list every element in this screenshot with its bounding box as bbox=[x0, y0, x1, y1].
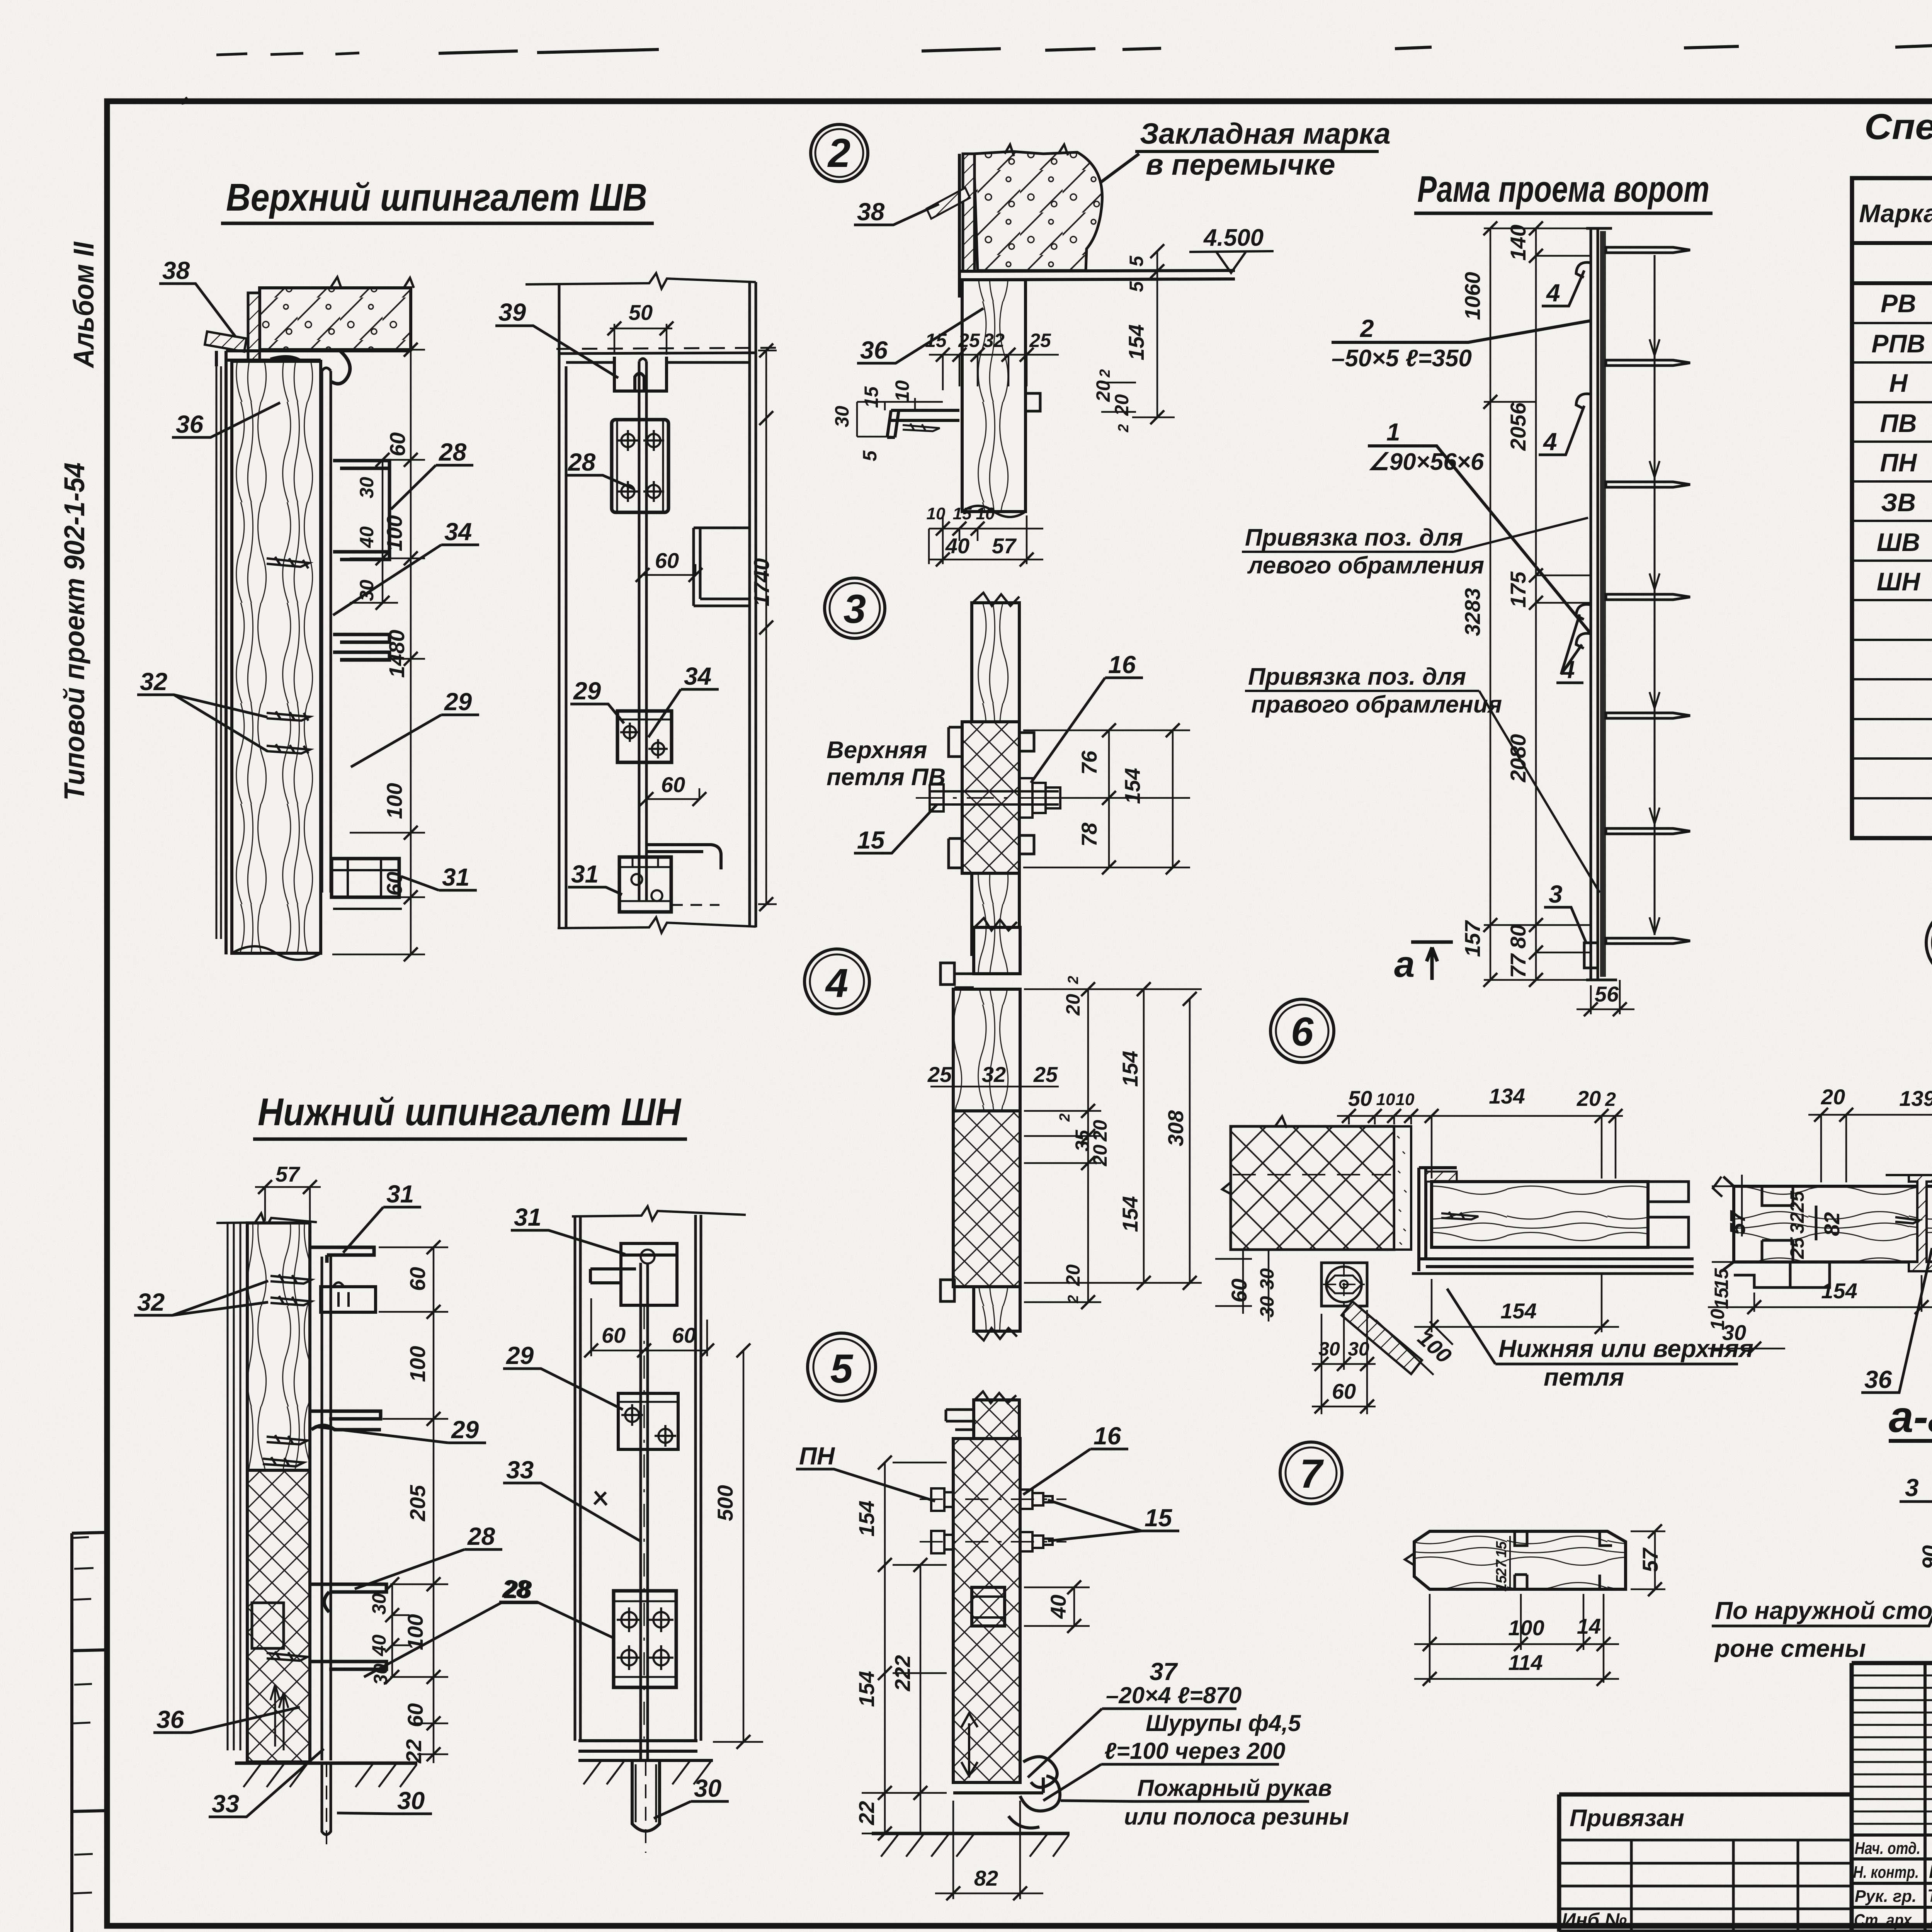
svg-text:30: 30 bbox=[1318, 1338, 1340, 1360]
dim 60 upper bbox=[636, 548, 702, 582]
spec title bbox=[1864, 106, 1932, 180]
detail 3 hinge pin bolt bbox=[916, 778, 1078, 818]
rod C bbox=[322, 1257, 331, 1760]
concrete lintel bbox=[260, 277, 414, 350]
svg-text:5: 5 bbox=[1126, 255, 1147, 267]
svg-text:82: 82 bbox=[974, 1866, 998, 1890]
svg-text:38: 38 bbox=[857, 198, 885, 226]
svg-text:15: 15 bbox=[857, 826, 885, 854]
svg-text:4: 4 bbox=[825, 961, 848, 1006]
label 29 drawing B bbox=[570, 677, 624, 723]
label 31 drawing B bbox=[568, 860, 622, 895]
spec row ShN bbox=[1877, 567, 1932, 597]
label 28 drawing A bbox=[391, 438, 473, 509]
label 33 D bbox=[503, 1456, 641, 1542]
svg-text:57: 57 bbox=[1725, 1210, 1750, 1235]
plate 28 D bbox=[614, 1591, 676, 1687]
embedded steel strip bbox=[248, 293, 260, 440]
hinge assembly detail 6 bbox=[1321, 1263, 1422, 1374]
detail 2 corner angle strip bbox=[963, 154, 975, 271]
svg-text:ШВ: ШВ bbox=[1877, 528, 1920, 556]
svg-text:100: 100 bbox=[382, 783, 406, 819]
detail 2 top dims 15 25 32 25 bbox=[925, 330, 1059, 390]
label 34 drawing A bbox=[333, 518, 479, 615]
svg-text:Нижний шпингалет ШН: Нижний шпингалет ШН bbox=[258, 1090, 682, 1134]
svg-text:Н: Н bbox=[1889, 369, 1908, 397]
detail 4 bottom plank bbox=[940, 1280, 1020, 1340]
detail 3 dims right bbox=[1023, 723, 1190, 874]
mid bracket 29C bbox=[311, 1411, 381, 1430]
top break line bbox=[526, 273, 756, 289]
detail circle 2 bbox=[811, 124, 868, 182]
dim 60 lower bbox=[639, 772, 706, 806]
title Rama proema vorot bbox=[1414, 168, 1713, 213]
svg-text:31: 31 bbox=[514, 1203, 541, 1231]
note privyazka pravogo bbox=[1245, 663, 1600, 893]
steel angle frame detail 6 bbox=[1419, 1168, 1694, 1271]
svg-text:2: 2 bbox=[1065, 1295, 1082, 1303]
section title a-a bbox=[1889, 1392, 1932, 1442]
svg-text:Тригубенко: Тригубенко bbox=[1927, 1886, 1932, 1906]
svg-text:ШН: ШН bbox=[1877, 567, 1921, 596]
low flange b bbox=[311, 1662, 386, 1669]
svg-text:Верхний шпингалет ШВ: Верхний шпингалет ШВ bbox=[226, 176, 647, 219]
fire hose coil bbox=[1009, 1757, 1060, 1828]
svg-text:50: 50 bbox=[1348, 1086, 1372, 1111]
keeper top D bbox=[590, 1243, 677, 1305]
dim 82 bbox=[935, 1801, 1043, 1900]
drawing B: ShV bolt front view bbox=[495, 273, 777, 933]
elevation left dim chain bbox=[1460, 221, 1591, 987]
handle bbox=[646, 845, 721, 869]
svg-text:2056: 2056 bbox=[1506, 402, 1530, 451]
svg-text:32: 32 bbox=[983, 330, 1005, 351]
svg-text:60: 60 bbox=[1332, 1379, 1356, 1403]
label 36 C bbox=[153, 1706, 300, 1733]
dim 50 bbox=[607, 300, 673, 355]
svg-text:57: 57 bbox=[992, 534, 1017, 558]
svg-text:154: 154 bbox=[1118, 1196, 1142, 1232]
svg-text:25: 25 bbox=[927, 1062, 952, 1087]
paper top edge line bbox=[216, 43, 1932, 55]
svg-text:Альбом II: Альбом II bbox=[68, 241, 100, 369]
note privyazka levogo bbox=[1242, 518, 1588, 579]
detail 8 small left dims 15 15 10 bbox=[1707, 1268, 1732, 1330]
guide bracket lower 29 bbox=[333, 634, 389, 660]
svg-text:20: 20 bbox=[1062, 1264, 1084, 1286]
label 30 C bbox=[337, 1787, 432, 1815]
svg-text:30: 30 bbox=[1256, 1296, 1278, 1318]
bent plate curls bbox=[270, 351, 350, 384]
anchors 7 pcs bbox=[1606, 247, 1690, 944]
detail 2 wood post bbox=[962, 280, 1040, 517]
detail 2 concrete blob bbox=[974, 145, 1102, 270]
svg-text:Рук. гр.: Рук. гр. bbox=[1855, 1887, 1917, 1906]
detail 4 upper plank bbox=[940, 918, 1020, 988]
jamb step bbox=[694, 528, 750, 606]
ground line C bbox=[235, 1763, 417, 1787]
svg-text:2: 2 bbox=[1605, 1088, 1616, 1110]
svg-text:60: 60 bbox=[403, 1703, 427, 1727]
socket 30 below ground bbox=[632, 1762, 660, 1853]
svg-text:56: 56 bbox=[1595, 982, 1619, 1006]
svg-text:ПН: ПН bbox=[1880, 448, 1917, 477]
svg-text:154: 154 bbox=[854, 1671, 879, 1707]
detail 5 top plank bbox=[946, 1391, 1019, 1439]
detail 2 left small dims bbox=[831, 380, 943, 461]
svg-text:15: 15 bbox=[1711, 1268, 1732, 1290]
svg-text:ПН: ПН bbox=[799, 1442, 835, 1470]
svg-text:40: 40 bbox=[945, 534, 969, 558]
svg-text:50: 50 bbox=[629, 300, 653, 325]
svg-text:40: 40 bbox=[356, 526, 378, 548]
label 28 drawing B bbox=[565, 448, 634, 489]
label 36 detail 2 bbox=[857, 308, 983, 364]
svg-text:32: 32 bbox=[140, 668, 167, 696]
svg-text:222: 222 bbox=[890, 1655, 915, 1691]
title Nizhniy shpingalet ShN bbox=[253, 1090, 687, 1139]
ground line detail 5 bbox=[872, 1833, 1070, 1857]
detail 5 left dims bbox=[854, 1456, 947, 1840]
detail 6 diag dim 100 bbox=[1376, 1320, 1456, 1375]
svg-text:Пожарный рукав: Пожарный рукав bbox=[1137, 1775, 1332, 1801]
label 39 bbox=[495, 298, 618, 378]
spec row RPV bbox=[1871, 329, 1932, 359]
spec table grid bbox=[1852, 178, 1932, 838]
svg-text:1060: 1060 bbox=[1460, 272, 1485, 320]
svg-text:2: 2 bbox=[1116, 424, 1132, 432]
bolt rod front bbox=[639, 359, 646, 900]
label 33 C bbox=[209, 1749, 324, 1818]
svg-text:15: 15 bbox=[861, 386, 882, 408]
spec row N bbox=[1889, 369, 1932, 398]
svg-text:31: 31 bbox=[571, 860, 599, 888]
svg-text:27: 27 bbox=[1493, 1559, 1510, 1577]
bottom keeper 31 bbox=[332, 859, 402, 909]
label 29 C bbox=[315, 1416, 486, 1444]
detail 5 bolt PN lower bbox=[920, 1531, 1066, 1553]
label 28b C bbox=[364, 1576, 539, 1677]
bottom break line B bbox=[558, 917, 756, 933]
svg-text:90: 90 bbox=[1918, 1545, 1932, 1569]
signature rows bbox=[1853, 1837, 1932, 1930]
bottom rail D bbox=[578, 1741, 697, 1751]
svg-text:32: 32 bbox=[982, 1062, 1006, 1087]
bolt rod section bbox=[322, 368, 331, 893]
svg-text:2: 2 bbox=[1065, 976, 1082, 984]
detail circle 5 bbox=[808, 1333, 876, 1401]
svg-text:ЗВ: ЗВ bbox=[1881, 488, 1916, 517]
svg-text:30: 30 bbox=[1256, 1268, 1278, 1290]
note po naruzhnoy storone steny bbox=[1712, 1587, 1932, 1662]
svg-text:Спецификация к схеме располо: Спецификация к схеме расположения bbox=[1864, 106, 1932, 147]
svg-text:30: 30 bbox=[694, 1774, 721, 1802]
screws ShN top bbox=[270, 1274, 311, 1305]
svg-text:Агапьева: Агапьева bbox=[1929, 1910, 1932, 1930]
svg-text:500: 500 bbox=[713, 1485, 737, 1521]
svg-text:60: 60 bbox=[385, 432, 410, 456]
svg-text:25: 25 bbox=[1786, 1237, 1808, 1259]
svg-text:ПВ: ПВ bbox=[1880, 409, 1917, 437]
svg-text:60: 60 bbox=[602, 1323, 626, 1347]
detail circle 3 bbox=[825, 578, 885, 638]
dim 60 60 D bbox=[584, 1298, 714, 1357]
detail 2 anchor 38 bbox=[854, 188, 970, 226]
label 30 D bbox=[654, 1774, 729, 1818]
detail 8 top dims 20 139 10 139 20 bbox=[1808, 1083, 1932, 1182]
frame verticals D bbox=[575, 1215, 701, 1741]
svg-text:Привязан: Привязан bbox=[1570, 1805, 1684, 1832]
brick wall bbox=[1222, 1116, 1394, 1250]
svg-text:30: 30 bbox=[831, 406, 853, 427]
title block grid bbox=[1559, 1663, 1932, 1932]
keeper 39 bbox=[614, 357, 667, 391]
svg-text:33: 33 bbox=[506, 1456, 534, 1484]
label 28 D bbox=[499, 1575, 614, 1638]
svg-text:1480: 1480 bbox=[384, 630, 409, 678]
low flange a bbox=[311, 1584, 386, 1612]
lintel lines bbox=[559, 353, 756, 362]
svg-text:20: 20 bbox=[1089, 1145, 1111, 1167]
stray mark top left bbox=[182, 97, 193, 104]
svg-text:38: 38 bbox=[162, 257, 190, 284]
svg-text:Привязка поз. для: Привязка поз. для bbox=[1245, 524, 1463, 551]
svg-text:57: 57 bbox=[276, 1162, 301, 1186]
label Verkhnyaya petlya PV bbox=[827, 737, 946, 791]
svg-text:в перемычке: в перемычке bbox=[1146, 148, 1335, 181]
detail 5 main plank bbox=[953, 1439, 1020, 1782]
detail 7 plank section a-a bbox=[1405, 1531, 1626, 1589]
dim chain right C bbox=[368, 1240, 448, 1764]
wall frame verticals bbox=[559, 282, 756, 927]
spec header bbox=[1859, 192, 1932, 240]
wood frame post with grain bbox=[232, 361, 321, 960]
svg-text:–20×4 ℓ=870: –20×4 ℓ=870 bbox=[1106, 1682, 1242, 1708]
svg-text:30: 30 bbox=[356, 477, 378, 498]
screws ShN mid bbox=[263, 1435, 308, 1466]
detail 2 angle under lintel bbox=[959, 154, 1235, 298]
detail 4 right dims bbox=[1024, 976, 1202, 1309]
detail 6 dim 154 bbox=[1414, 1274, 1619, 1334]
svg-text:60: 60 bbox=[661, 772, 685, 797]
svg-text:154: 154 bbox=[1124, 324, 1148, 360]
label 15 detail 3 bbox=[854, 804, 937, 854]
svg-text:4.500: 4.500 bbox=[1203, 224, 1264, 251]
svg-text:77: 77 bbox=[1506, 953, 1530, 978]
svg-text:134: 134 bbox=[1489, 1084, 1525, 1108]
svg-text:29: 29 bbox=[573, 677, 601, 705]
svg-text:32: 32 bbox=[1786, 1212, 1808, 1234]
detail 6 left dims bbox=[1215, 1250, 1278, 1321]
svg-text:76: 76 bbox=[1077, 750, 1101, 775]
jamb strip speckled bbox=[1394, 1126, 1411, 1250]
detail 5 bolt PN upper bbox=[920, 1488, 1066, 1511]
svg-text:28: 28 bbox=[467, 1522, 495, 1550]
svg-text:28: 28 bbox=[439, 438, 467, 466]
svg-text:5: 5 bbox=[830, 1346, 854, 1391]
up arrows in wood bbox=[270, 1685, 288, 1750]
top break D bbox=[572, 1206, 746, 1220]
svg-text:Рама проема ворот: Рама проема ворот bbox=[1417, 168, 1709, 210]
label 16 detail 3 bbox=[1031, 651, 1143, 783]
svg-text:а-а: а-а bbox=[1889, 1392, 1932, 1442]
detail circle 4 bbox=[804, 949, 869, 1014]
detail circle 7 bbox=[1280, 1442, 1342, 1504]
detail 8 bottom dims 154 20 154 30 bbox=[1708, 1275, 1932, 1355]
angle under lintel bbox=[216, 351, 411, 954]
svg-text:205: 205 bbox=[405, 1485, 430, 1521]
svg-text:140: 140 bbox=[1506, 224, 1530, 260]
screws ShN low bbox=[267, 1651, 308, 1661]
svg-text:3: 3 bbox=[844, 587, 866, 632]
svg-text:154: 154 bbox=[854, 1500, 879, 1536]
label 29 D bbox=[503, 1342, 623, 1410]
label 32 bbox=[137, 668, 267, 751]
svg-text:37: 37 bbox=[1150, 1658, 1179, 1685]
svg-text:31: 31 bbox=[442, 863, 469, 891]
svg-text:30: 30 bbox=[397, 1787, 425, 1815]
svg-text:100: 100 bbox=[405, 1346, 430, 1382]
svg-text:25: 25 bbox=[958, 330, 980, 351]
svg-text:30: 30 bbox=[1348, 1338, 1369, 1360]
detail 6 bottom dims 30 30 60 bbox=[1312, 1310, 1376, 1414]
dashed line bbox=[556, 348, 777, 349]
dim 56 elevation bbox=[1577, 980, 1634, 1016]
svg-text:15: 15 bbox=[953, 504, 972, 523]
svg-text:петля ПВ: петля ПВ bbox=[827, 764, 946, 791]
svg-text:15: 15 bbox=[1145, 1504, 1173, 1532]
detail 4 wood mid bbox=[953, 989, 1020, 1111]
label 4 c bbox=[1556, 614, 1583, 684]
svg-text:29: 29 bbox=[444, 688, 472, 716]
detail circle 6 bbox=[1270, 999, 1334, 1063]
dim 500 D bbox=[713, 1344, 763, 1749]
svg-text:20: 20 bbox=[1089, 1120, 1111, 1142]
svg-text:10: 10 bbox=[891, 380, 913, 402]
label 1 angle bbox=[1368, 418, 1591, 634]
detail 4 insert bbox=[973, 1124, 999, 1166]
svg-text:2: 2 bbox=[827, 131, 850, 176]
svg-text:154: 154 bbox=[1120, 768, 1145, 804]
svg-text:3283: 3283 bbox=[1460, 588, 1485, 636]
label 28a C bbox=[355, 1522, 502, 1589]
label 31 D bbox=[511, 1203, 625, 1254]
detail circle 8 bbox=[1926, 907, 1932, 978]
svg-text:6: 6 bbox=[1291, 1009, 1314, 1054]
frame member vertical bbox=[1586, 228, 1617, 980]
svg-text:10: 10 bbox=[976, 504, 995, 523]
svg-text:28: 28 bbox=[502, 1575, 530, 1603]
svg-text:4: 4 bbox=[1546, 279, 1560, 307]
svg-text:36: 36 bbox=[1864, 1366, 1892, 1393]
anchor flag 38 bbox=[159, 257, 247, 352]
svg-text:34: 34 bbox=[684, 662, 711, 690]
detail 3 hinge band bbox=[949, 722, 1034, 873]
svg-text:–50×5 ℓ=350: –50×5 ℓ=350 bbox=[1332, 345, 1472, 372]
label 37 group bbox=[1028, 1658, 1301, 1801]
svg-text:30: 30 bbox=[368, 1593, 390, 1615]
svg-text:Верхняя: Верхняя bbox=[827, 737, 927, 764]
title Verkhniy shpingalet ShV bbox=[221, 176, 654, 223]
svg-text:60: 60 bbox=[382, 872, 406, 896]
svg-text:308: 308 bbox=[1163, 1110, 1188, 1146]
spec row ZV bbox=[1881, 488, 1932, 517]
svg-text:2080: 2080 bbox=[1506, 734, 1530, 783]
spec row PV bbox=[1880, 409, 1932, 438]
ground line D bbox=[578, 1760, 713, 1784]
svg-text:5: 5 bbox=[1126, 281, 1147, 292]
svg-text:20: 20 bbox=[1577, 1086, 1601, 1111]
svg-text:32: 32 bbox=[137, 1288, 165, 1316]
detail 5 bottom foot bbox=[953, 1713, 1043, 1793]
svg-text:левого обрамления: левого обрамления bbox=[1247, 552, 1484, 579]
top break bbox=[216, 1213, 317, 1227]
svg-text:80: 80 bbox=[1506, 925, 1530, 949]
svg-text:1: 1 bbox=[1386, 418, 1400, 446]
svg-text:роне стены: роне стены bbox=[1714, 1634, 1866, 1662]
svg-text:154: 154 bbox=[1118, 1051, 1142, 1087]
detail 2 right dims bbox=[1092, 244, 1175, 433]
door leaf wood detail 6 bbox=[1432, 1182, 1689, 1247]
label 3 elevation bbox=[1544, 880, 1586, 943]
dim 1740 bbox=[749, 344, 777, 911]
svg-text:По наружной сто-: По наружной сто- bbox=[1715, 1597, 1932, 1624]
svg-text:29: 29 bbox=[451, 1416, 479, 1444]
svg-text:20: 20 bbox=[1821, 1085, 1845, 1109]
svg-text:Власенко: Власенко bbox=[1929, 1862, 1932, 1882]
svg-text:10: 10 bbox=[927, 504, 946, 523]
detail 7 small dims 15 27 15 bbox=[1493, 1536, 1510, 1592]
svg-text:22: 22 bbox=[854, 1801, 879, 1825]
svg-text:ℓ=100 через 200: ℓ=100 через 200 bbox=[1104, 1738, 1286, 1764]
svg-text:28: 28 bbox=[568, 448, 596, 476]
detail 2 bottom dims bbox=[927, 504, 1043, 566]
svg-text:2: 2 bbox=[1057, 1113, 1073, 1122]
label PN bbox=[796, 1442, 935, 1501]
label 36 bbox=[172, 403, 280, 438]
label 4 b bbox=[1539, 406, 1584, 456]
guide bracket upper 28 bbox=[333, 461, 389, 560]
svg-text:36: 36 bbox=[860, 336, 888, 364]
label 4 a bbox=[1542, 270, 1584, 307]
svg-text:82: 82 bbox=[1820, 1212, 1844, 1236]
svg-text:100: 100 bbox=[1508, 1616, 1544, 1640]
svg-text:∠90×56×6: ∠90×56×6 bbox=[1368, 449, 1484, 475]
svg-text:33: 33 bbox=[212, 1790, 239, 1818]
wood post ShN bbox=[247, 1223, 310, 1762]
svg-text:100: 100 bbox=[382, 515, 406, 551]
svg-text:2: 2 bbox=[1097, 369, 1113, 378]
label 36 detail 8 bbox=[1861, 1248, 1932, 1393]
svg-text:Закладная марка: Закладная марка bbox=[1140, 117, 1391, 150]
svg-text:15: 15 bbox=[1493, 1575, 1510, 1592]
svg-text:25: 25 bbox=[1029, 330, 1051, 351]
label 31 drawing A bbox=[401, 863, 477, 891]
dim 57 top bbox=[255, 1162, 321, 1221]
detail 8 left nashchelnik Z bbox=[1886, 1175, 1932, 1271]
dim chain right of section A bbox=[332, 287, 425, 961]
label 2 strip bbox=[1332, 315, 1591, 372]
section mark a with arrow bbox=[1394, 942, 1453, 985]
svg-text:30: 30 bbox=[1722, 1320, 1746, 1345]
svg-text:15: 15 bbox=[1493, 1541, 1510, 1558]
svg-text:Ст. арх.: Ст. арх. bbox=[1854, 1911, 1916, 1930]
detail 6 top dims bbox=[1337, 1084, 1623, 1179]
detail 8 left leaf bbox=[1713, 1177, 1932, 1271]
svg-text:20: 20 bbox=[1111, 394, 1133, 416]
svg-text:16: 16 bbox=[1108, 651, 1136, 679]
svg-text:22: 22 bbox=[401, 1739, 426, 1764]
